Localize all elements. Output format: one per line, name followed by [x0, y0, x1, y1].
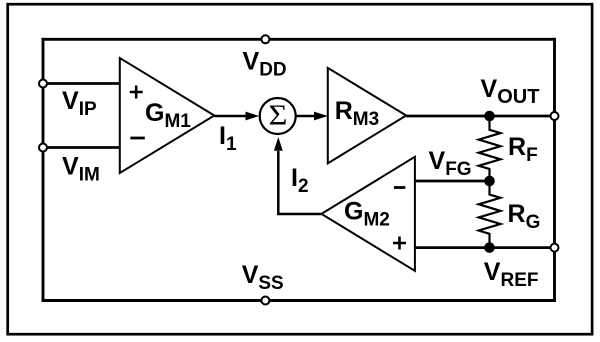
- wire VIP: [43, 82, 120, 85]
- wire I1: [214, 112, 259, 121]
- wire right rail: [553, 39, 556, 300]
- wire VIM: [43, 146, 120, 149]
- terminal VDD: [261, 35, 269, 43]
- wire VDD rail: [43, 38, 555, 41]
- op-amp GM1: [120, 58, 215, 173]
- junction VOUT: [484, 111, 495, 122]
- wire left rail: [42, 39, 45, 300]
- terminal VSS: [261, 297, 269, 305]
- terminal VIM: [39, 144, 47, 152]
- wire sigma to RM3: [296, 112, 328, 121]
- summing node: [260, 98, 296, 134]
- wire VREF: [415, 246, 555, 249]
- terminal VREF: [551, 244, 559, 252]
- junction VREF: [484, 242, 495, 253]
- resistor RF: [479, 116, 501, 181]
- wire I2: [274, 137, 322, 214]
- svg-text:Σ: Σ: [268, 100, 287, 131]
- junction VFG: [484, 176, 495, 187]
- resistor RG: [479, 181, 501, 248]
- terminal VIP: [39, 80, 47, 88]
- terminal VOUT: [551, 112, 559, 120]
- op-amp GM2: [321, 157, 415, 271]
- wire VSS rail: [43, 299, 555, 302]
- wire VFG: [415, 180, 490, 183]
- amplifier RM3: [328, 68, 406, 163]
- wire VOUT: [406, 115, 554, 118]
